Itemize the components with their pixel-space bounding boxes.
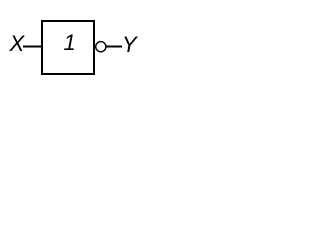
wire output bbox=[106, 46, 122, 48]
svg-text:X: X bbox=[9, 31, 26, 56]
svg-text:Y: Y bbox=[122, 32, 138, 57]
bubble (inversion circle) bbox=[96, 42, 106, 52]
wire input bbox=[23, 46, 42, 48]
inverter U1 box bbox=[42, 21, 94, 74]
svg-text:1: 1 bbox=[64, 30, 76, 55]
